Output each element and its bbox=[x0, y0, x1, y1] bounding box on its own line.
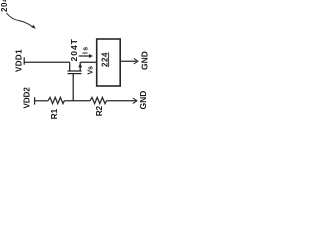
resistor R1 bbox=[48, 97, 64, 103]
VDD2 terminal bar bbox=[34, 97, 36, 104]
current arrow Is (pointing right) bbox=[79, 55, 91, 57]
wire R2 to GND arrow (open head) bbox=[106, 100, 135, 102]
svg-text:R2: R2 bbox=[95, 105, 104, 116]
leader arrow from 204 to circuit bbox=[7, 13, 33, 27]
transistor 204T gate line bbox=[68, 73, 82, 75]
svg-text:Vs: Vs bbox=[87, 66, 94, 75]
svg-text:R1: R1 bbox=[50, 108, 59, 119]
VDD1 terminal bar bbox=[23, 57, 25, 64]
transistor 204T source lead bbox=[79, 62, 81, 71]
svg-text:VDD1: VDD1 bbox=[15, 49, 24, 72]
svg-text:204T: 204T bbox=[69, 38, 79, 61]
svg-text:Is: Is bbox=[83, 46, 90, 54]
wire R1 to R2 (gate node) bbox=[64, 100, 90, 102]
svg-text:204: 204 bbox=[0, 0, 9, 12]
block 224 bbox=[97, 39, 121, 86]
wire VDD1 to transistor drain bbox=[24, 61, 69, 63]
svg-text:VDD2: VDD2 bbox=[23, 87, 32, 109]
transistor 204T (MOSFET, rotated) : drain lead bbox=[69, 62, 71, 71]
svg-text:GND: GND bbox=[139, 51, 149, 70]
resistor R2 bbox=[90, 97, 106, 103]
wire source to block 224 bbox=[80, 61, 97, 63]
voltage arrow Vs (on source lead, pointing up) bbox=[78, 63, 82, 67]
svg-text:GND: GND bbox=[138, 91, 148, 110]
transistor 204T channel line bbox=[68, 70, 82, 72]
arrow block 224 to GND (open head) bbox=[120, 60, 136, 62]
wire VDD2 to R1 bbox=[35, 100, 48, 102]
transistor 204T gate lead down to divider node bbox=[72, 74, 74, 101]
